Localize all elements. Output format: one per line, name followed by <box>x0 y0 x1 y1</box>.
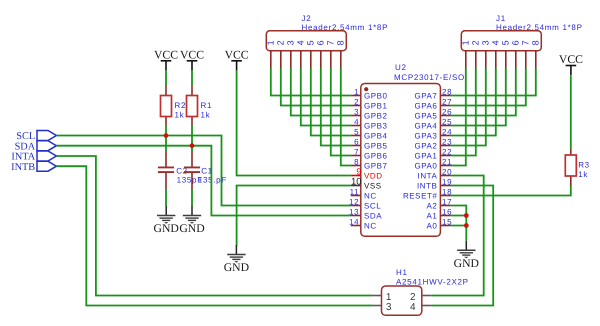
U2 right pin 28 GPA7 <box>414 87 452 100</box>
wire U2 VSS pin 10 to GND <box>237 186 351 247</box>
svg-text:7: 7 <box>354 147 359 156</box>
J1 pin 6 <box>511 40 521 69</box>
svg-text:MCP23017-E/SO: MCP23017-E/SO <box>394 73 465 82</box>
wire J1 pin 1 to U2 pin 21 <box>450 68 465 165</box>
svg-text:23: 23 <box>442 137 452 146</box>
U2 right pin 22 GPA1 <box>414 147 452 160</box>
capacitor C1 pin stubs <box>191 151 193 167</box>
wire SCL label to U2 pin 12 <box>56 136 350 206</box>
svg-text:12: 12 <box>349 197 359 206</box>
svg-text:11: 11 <box>350 187 360 196</box>
svg-text:15: 15 <box>442 217 452 226</box>
svg-text:GPA5: GPA5 <box>414 112 437 121</box>
svg-text:13: 13 <box>349 207 359 216</box>
svg-text:A1: A1 <box>427 212 438 221</box>
wire SDA label to U2 pin 13 <box>56 146 350 216</box>
svg-text:3: 3 <box>354 107 359 116</box>
svg-text:1: 1 <box>461 40 471 45</box>
svg-text:3: 3 <box>286 40 296 45</box>
U2 left pin 7 GPB6 <box>351 147 388 160</box>
svg-text:7: 7 <box>521 40 531 45</box>
svg-text:16: 16 <box>442 207 452 216</box>
resistor R1 <box>187 96 198 117</box>
svg-text:24: 24 <box>442 127 452 136</box>
wire J2 pin 2 to U2 pin 2 <box>281 68 351 105</box>
H1 pin 1 <box>372 292 392 303</box>
resistor R1 pin stubs <box>191 86 193 96</box>
wire C1 to GND <box>191 190 193 207</box>
svg-text:A2541HWV-2X2P: A2541HWV-2X2P <box>396 278 469 287</box>
power VCC (above R2) <box>154 48 178 70</box>
svg-text:SDA: SDA <box>364 212 382 221</box>
svg-text:VSS: VSS <box>364 182 382 191</box>
hierarchical label SCL <box>37 131 56 141</box>
junction on SDA at R1 <box>190 143 195 148</box>
svg-text:135.pF: 135.pF <box>198 176 227 185</box>
svg-text:10: 10 <box>351 177 362 188</box>
svg-text:21: 21 <box>442 157 452 166</box>
svg-text:VCC: VCC <box>180 48 204 61</box>
wire J2 pin 8 to U2 pin 8 <box>341 68 351 165</box>
U2 left pin 14 NC <box>349 217 377 230</box>
U2 right pin 24 GPA3 <box>414 127 452 140</box>
svg-text:GPA0: GPA0 <box>414 162 437 171</box>
svg-text:GPB3: GPB3 <box>364 122 388 131</box>
svg-text:9: 9 <box>356 166 361 176</box>
J1 pin 5 <box>501 40 511 69</box>
junction at A1 <box>464 213 469 218</box>
svg-text:1k: 1k <box>175 110 185 119</box>
wire J1 pin 8 to U2 pin 28 <box>450 68 535 95</box>
svg-text:GPA3: GPA3 <box>414 132 437 141</box>
H1 pin 2 <box>410 292 431 303</box>
svg-text:GPA1: GPA1 <box>414 152 437 161</box>
svg-text:R2: R2 <box>175 101 187 110</box>
svg-text:R3: R3 <box>578 161 590 170</box>
wire J2 pin 7 to U2 pin 7 <box>331 68 351 155</box>
U2 right pin 23 GPA2 <box>414 137 452 150</box>
J2 pin 6 <box>316 40 326 69</box>
U2 left pin 5 GPB4 <box>351 127 388 140</box>
svg-text:14: 14 <box>349 217 359 226</box>
J2 pin 2 <box>276 40 286 69</box>
U2 right pin 16 A1 <box>427 207 453 220</box>
svg-text:GPA6: GPA6 <box>414 102 437 111</box>
wire U2 A2 pin 17 to GND <box>450 206 466 241</box>
resistor R3 <box>565 155 576 176</box>
wire U2 A0 pin 15 <box>450 225 466 227</box>
resistor R2 <box>161 96 172 117</box>
svg-text:4: 4 <box>354 117 359 126</box>
hierarchical label INTA <box>37 151 56 161</box>
svg-text:VCC: VCC <box>559 53 583 66</box>
svg-text:GPA4: GPA4 <box>414 122 437 131</box>
svg-text:6: 6 <box>354 137 359 146</box>
svg-text:3: 3 <box>386 302 392 313</box>
wire U2 INTB pin 19 to H1 pin 4 <box>431 186 493 306</box>
svg-text:GPB6: GPB6 <box>364 152 388 161</box>
svg-text:NC: NC <box>364 222 377 231</box>
svg-text:R1: R1 <box>201 101 213 110</box>
U2 right pin 18 RESET# <box>403 187 452 200</box>
svg-text:1k: 1k <box>578 170 588 179</box>
U2 left pin 13 SDA <box>349 207 382 220</box>
svg-text:GND: GND <box>179 222 204 235</box>
wire U2 RESET# pin 18 to R3 <box>450 186 570 196</box>
svg-text:GPB7: GPB7 <box>364 162 388 171</box>
H1 pin 4 <box>410 302 431 313</box>
wire J2 pin 4 to U2 pin 4 <box>301 68 351 125</box>
svg-text:5: 5 <box>501 40 511 45</box>
wire J1 pin 6 to U2 pin 26 <box>450 68 515 115</box>
svg-text:GPB1: GPB1 <box>364 102 388 111</box>
J1 pin 3 <box>481 40 491 69</box>
ground (below C1) <box>179 206 204 235</box>
U2 left pin 11 NC <box>350 187 377 200</box>
svg-text:7: 7 <box>326 40 336 45</box>
svg-text:A0: A0 <box>427 222 438 231</box>
svg-text:5: 5 <box>354 127 359 136</box>
J2 pin 4 <box>296 40 306 69</box>
svg-text:GPA2: GPA2 <box>414 142 437 151</box>
wire J1 pin 4 to U2 pin 24 <box>450 68 495 135</box>
svg-text:8: 8 <box>354 157 359 166</box>
svg-text:INTA: INTA <box>418 172 438 181</box>
svg-text:INTB: INTB <box>417 182 437 191</box>
wire J1 pin 5 to U2 pin 25 <box>450 68 505 125</box>
U2 right pin 26 GPA5 <box>414 107 452 120</box>
svg-text:2: 2 <box>276 40 286 45</box>
connector J1 <box>461 31 541 51</box>
svg-text:25: 25 <box>442 117 452 126</box>
svg-text:8: 8 <box>336 40 346 45</box>
op-amp U2 body <box>361 84 441 237</box>
svg-text:1: 1 <box>354 87 359 96</box>
svg-text:1k: 1k <box>201 110 211 119</box>
ground (below C2) <box>154 206 179 235</box>
svg-text:8: 8 <box>531 40 541 45</box>
U2 right pin 25 GPA4 <box>414 117 452 130</box>
U2 left pin 3 GPB2 <box>351 107 388 120</box>
resistor R2 pin stubs <box>165 86 167 96</box>
svg-text:6: 6 <box>316 40 326 45</box>
svg-text:1: 1 <box>266 40 276 45</box>
svg-text:4: 4 <box>410 302 416 313</box>
svg-text:H1: H1 <box>396 268 408 277</box>
svg-text:2: 2 <box>471 40 481 45</box>
wire C2 to GND <box>165 190 167 207</box>
J2 pin 1 <box>266 40 276 69</box>
U2 left pin 12 SCL <box>349 197 381 210</box>
svg-text:SCL: SCL <box>364 202 381 211</box>
svg-text:RESET#: RESET# <box>403 192 437 201</box>
U2 left pin 2 GPB1 <box>351 97 388 110</box>
wire VCC to R2 <box>165 70 167 86</box>
ground (VSS) <box>224 245 249 274</box>
svg-text:26: 26 <box>442 107 452 116</box>
U2 right pin 19 INTB <box>417 177 452 190</box>
svg-text:19: 19 <box>442 177 452 186</box>
wire INTB label to H1 pin 3 <box>56 166 372 305</box>
hierarchical label SDA <box>37 141 56 151</box>
power VCC (above R3) <box>559 53 583 75</box>
wire VCC to U2 VDD pin 9 <box>237 70 351 175</box>
svg-text:J1: J1 <box>496 14 506 23</box>
svg-text:28: 28 <box>442 87 452 96</box>
svg-text:VCC: VCC <box>154 48 178 61</box>
wire J2 pin 3 to U2 pin 3 <box>291 68 351 115</box>
svg-text:GPB4: GPB4 <box>364 132 388 141</box>
svg-text:VCC: VCC <box>225 48 249 61</box>
U2 right pin 17 A2 <box>427 197 453 210</box>
svg-text:5: 5 <box>306 40 316 45</box>
J1 pin 7 <box>521 40 531 69</box>
power VCC (VDD feed) <box>225 48 249 70</box>
svg-text:GPB2: GPB2 <box>364 112 388 121</box>
capacitor C1 <box>184 166 200 168</box>
U2 pin 1 marker dot <box>364 87 368 91</box>
svg-text:GND: GND <box>154 222 179 235</box>
J1 pin 4 <box>491 40 501 69</box>
svg-text:GPA7: GPA7 <box>414 92 437 101</box>
wire U2 INTA pin 20 to H1 pin 2 <box>431 176 484 296</box>
U2 right pin 20 INTA <box>418 167 453 180</box>
U2 left pin 8 GPB7 <box>351 157 388 170</box>
capacitor C2 pin stubs <box>165 151 167 167</box>
wire R2 to C2 (through SCL junction) <box>165 126 167 151</box>
svg-text:GND: GND <box>454 257 479 270</box>
wire INTA label to H1 pin 1 <box>56 156 372 296</box>
capacitor C2 <box>158 166 174 168</box>
U2 left pin 4 GPB3 <box>351 117 388 130</box>
wire R1 to C1 (through SDA junction) <box>191 126 193 151</box>
svg-text:GPB5: GPB5 <box>364 142 388 151</box>
J1 pin 2 <box>471 40 481 69</box>
svg-text:6: 6 <box>511 40 521 45</box>
svg-text:3: 3 <box>481 40 491 45</box>
svg-text:GND: GND <box>224 261 249 274</box>
svg-text:U2: U2 <box>395 63 407 72</box>
ground (A2/A1/A0) <box>454 241 479 270</box>
junction on SCL at R2 <box>164 133 169 138</box>
connector H1 body <box>382 286 422 315</box>
connector J2 <box>266 31 346 51</box>
svg-text:J2: J2 <box>302 14 312 23</box>
U2 right pin 15 A0 <box>427 217 453 230</box>
J1 pin 8 <box>531 40 541 69</box>
svg-text:17: 17 <box>442 197 452 206</box>
wire J2 pin 5 to U2 pin 5 <box>311 68 351 135</box>
wire J1 pin 7 to U2 pin 27 <box>450 68 525 105</box>
junction at A0 <box>464 223 469 228</box>
power VCC (above R1) <box>180 48 204 70</box>
U2 left pin 10 VSS <box>351 177 382 191</box>
J2 pin 3 <box>286 40 296 69</box>
wire J2 pin 1 to U2 pin 1 <box>271 68 351 95</box>
svg-text:22: 22 <box>442 147 452 156</box>
svg-text:27: 27 <box>442 97 452 106</box>
svg-text:Header2.54mm 1*8P: Header2.54mm 1*8P <box>496 23 583 32</box>
wire U2 A1 pin 16 <box>450 215 466 217</box>
J2 pin 5 <box>306 40 316 69</box>
svg-text:4: 4 <box>296 40 306 45</box>
wire J1 pin 2 to U2 pin 22 <box>450 68 475 155</box>
resistor R3 pin stubs <box>570 176 572 185</box>
wire VCC to R1 <box>191 70 193 86</box>
wire J2 pin 6 to U2 pin 6 <box>321 68 351 145</box>
svg-text:INTB: INTB <box>11 162 35 173</box>
svg-text:VDD: VDD <box>364 172 383 181</box>
svg-text:NC: NC <box>364 192 377 201</box>
H1 pin 3 <box>372 302 392 313</box>
svg-text:4: 4 <box>491 40 501 45</box>
svg-text:2: 2 <box>354 97 359 106</box>
J1 pin 1 <box>461 40 471 69</box>
svg-text:20: 20 <box>442 167 452 176</box>
wire J1 pin 3 to U2 pin 23 <box>450 68 485 145</box>
U2 left pin 9 VDD <box>351 166 383 180</box>
svg-text:Header2.54mm 1*8P: Header2.54mm 1*8P <box>302 23 389 32</box>
U2 left pin 1 GPB0 <box>351 87 388 100</box>
J2 pin 8 <box>336 40 346 69</box>
svg-text:18: 18 <box>442 187 452 196</box>
U2 right pin 27 GPA6 <box>414 97 452 110</box>
wire R3 to VCC <box>570 75 572 148</box>
hierarchical label INTB <box>37 161 56 171</box>
svg-text:A2: A2 <box>427 202 438 211</box>
U2 left pin 6 GPB5 <box>351 137 388 150</box>
U2 right pin 21 GPA0 <box>414 157 452 170</box>
J2 pin 7 <box>326 40 336 69</box>
svg-text:GPB0: GPB0 <box>364 92 388 101</box>
